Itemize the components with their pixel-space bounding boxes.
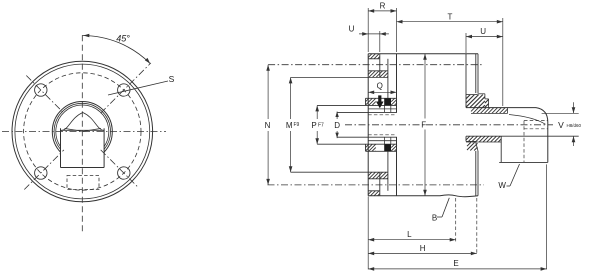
V dim line top <box>573 102 575 113</box>
P arrow top <box>315 105 319 111</box>
boss body right side <box>103 128 105 167</box>
P dimension line <box>316 105 318 119</box>
L arrow left <box>368 238 374 242</box>
dimension line U right <box>466 36 503 38</box>
dome radial line left <box>65 128 83 131</box>
leader line S <box>108 81 168 95</box>
seal ring black bottom <box>384 144 391 151</box>
nut band right end <box>507 108 509 114</box>
boss outer circle arc <box>52 101 112 152</box>
M recess edge bottom <box>291 171 388 173</box>
M dimension line <box>290 77 292 119</box>
cap left face <box>367 54 369 196</box>
tube bottom edge with break <box>368 195 478 197</box>
thread hidden line bottom <box>368 134 396 136</box>
cap body left edge bottom <box>396 137 398 196</box>
U left arrow l <box>362 32 368 36</box>
Q arrow left <box>368 91 374 95</box>
bolt hole edge mirror2 <box>368 178 388 180</box>
V arrow top <box>572 107 576 113</box>
boss body left side <box>60 128 62 167</box>
T arrow left <box>397 20 403 24</box>
hatch cap lower band1 <box>368 191 372 195</box>
bolt hole top-left <box>35 84 47 96</box>
D bore line top <box>337 111 397 113</box>
V arrow bottom <box>572 136 576 142</box>
svg-text:U: U <box>349 25 355 34</box>
svg-text:M: M <box>286 121 293 130</box>
thread hidden bottom <box>524 128 548 130</box>
svg-text:H8/d60: H8/d60 <box>567 123 582 128</box>
R arrow left <box>368 9 374 13</box>
svg-text:S: S <box>169 74 175 84</box>
D dimension line <box>336 112 338 120</box>
dome radial line right <box>83 128 101 131</box>
dimension line Q <box>368 91 396 93</box>
M recess edge top <box>291 76 388 78</box>
45deg arc arrowhead bottom <box>145 58 150 64</box>
flats block bottom <box>499 161 548 163</box>
svg-text:W: W <box>498 181 506 190</box>
cap plate back face bottom <box>379 172 381 195</box>
tube end face inner <box>477 54 479 93</box>
D arrow top <box>335 112 338 118</box>
seal ring black top <box>384 98 391 105</box>
M recess wall bottom <box>387 151 389 191</box>
svg-text:E: E <box>453 259 458 268</box>
dome arch curve <box>61 113 105 131</box>
M recess wall top <box>387 59 389 99</box>
R extension right <box>396 8 398 52</box>
rod right face <box>547 122 549 162</box>
vertical centerline (left view) <box>81 35 83 232</box>
U left dimension line <box>359 33 389 35</box>
bolt hole top-right <box>118 84 130 96</box>
gland strip top upper <box>366 97 397 99</box>
svg-text:D: D <box>334 121 340 130</box>
gland strip bot left end <box>365 144 367 151</box>
U right arrow r <box>497 35 503 39</box>
hatch gland strip top B <box>391 98 394 101</box>
P arrow bottom <box>315 138 319 144</box>
F arrow bottom <box>423 190 427 196</box>
svg-text:V: V <box>558 120 564 130</box>
45deg arc arrowhead top <box>83 34 89 38</box>
dimension line T <box>397 21 503 23</box>
svg-text:U: U <box>480 27 486 36</box>
gland sleeve edge bottom <box>465 136 467 141</box>
main axis centerline <box>345 124 553 126</box>
gland strip mid line <box>368 108 396 110</box>
gland step top v1 <box>484 94 486 99</box>
svg-text:45°: 45° <box>116 34 130 44</box>
hatch nut band top <box>471 108 475 112</box>
svg-text:H: H <box>420 244 426 253</box>
tube end face outer <box>475 54 477 93</box>
H ext line <box>476 198 478 255</box>
E arrow left <box>368 267 374 271</box>
bolt hole bottom-right <box>118 167 130 179</box>
E ext line left <box>367 197 369 270</box>
cap body left edge top <box>396 54 398 113</box>
E arrow right <box>541 267 547 271</box>
seal groove wall right bottom <box>390 137 392 144</box>
U left ext <box>379 31 381 52</box>
gland sleeve edge top <box>465 54 467 108</box>
bolt hole top edge <box>368 58 380 60</box>
bolt hole edge mirror1 <box>368 190 380 192</box>
N arrow bottom <box>266 179 270 185</box>
M arrow bottom <box>289 166 293 172</box>
diagonal centerline NW segment <box>26 76 64 114</box>
D bore line bottom <box>337 136 397 138</box>
svg-text:F7: F7 <box>318 123 324 129</box>
rod dome arc <box>509 115 546 125</box>
tube top edge <box>368 53 478 55</box>
Q arrow right <box>391 91 397 95</box>
N arrow top <box>266 65 270 71</box>
thread hidden line top <box>368 114 396 116</box>
flats block left face <box>500 136 502 162</box>
H arrow right <box>471 252 477 256</box>
bolt circle (dashed) <box>24 73 141 190</box>
F arrow top <box>423 54 427 60</box>
svg-text:T: T <box>448 12 453 21</box>
svg-text:B: B <box>432 214 437 223</box>
hatch head top <box>466 95 470 99</box>
dimension line L <box>368 239 456 241</box>
hatch nut band bottom <box>466 136 470 140</box>
svg-text:L: L <box>407 230 412 239</box>
seal groove wall left bottom <box>384 137 386 144</box>
thread depth hidden vertical <box>523 121 525 163</box>
boss chord line <box>61 129 105 131</box>
T extension right <box>502 18 504 106</box>
hatch cap lower band2 <box>368 172 372 176</box>
L arrow right <box>450 238 456 242</box>
svg-text:F: F <box>421 121 426 130</box>
leader W <box>507 185 511 187</box>
hatch gland bottom <box>467 142 471 146</box>
svg-text:P: P <box>311 121 316 130</box>
F dimension line <box>424 54 426 119</box>
gland strip top lower <box>317 104 397 106</box>
gland step top h2 <box>478 93 485 95</box>
gland strip bot lower <box>366 150 397 152</box>
hatch cap upper band1 <box>368 54 372 58</box>
bolt hole centerline top <box>268 64 484 66</box>
boss middle circle arc <box>54 103 110 149</box>
cap plate back face top <box>379 54 381 77</box>
gland strip top left end <box>365 98 367 105</box>
R extension left <box>367 8 369 52</box>
gland step top h3 <box>485 98 489 100</box>
rod nut outer surface top <box>466 107 536 109</box>
dimension line E <box>368 268 546 270</box>
rod bottom surface <box>466 135 579 137</box>
flange outer circle <box>12 61 153 202</box>
svg-text:Q: Q <box>377 82 383 91</box>
gland strip bot upper <box>317 143 397 145</box>
hidden square (dashed rect) <box>67 176 99 190</box>
hatch gland strip bot A <box>366 144 369 147</box>
diagonal centerline NE segment <box>101 63 151 113</box>
H arrow left <box>368 252 374 256</box>
45deg dimension arc <box>82 35 150 63</box>
U right ext left <box>465 33 467 53</box>
nut band top line bottom <box>466 141 501 143</box>
hatch cap upper band2 <box>368 71 372 75</box>
gland bottom chamfer <box>476 141 479 151</box>
tube end face outer lower <box>475 151 477 196</box>
svg-text:F9: F9 <box>294 122 300 128</box>
gland strip bot mid line <box>368 140 396 142</box>
dimension line H <box>368 252 477 254</box>
wiper arrow (filled) <box>376 95 384 108</box>
V ext top <box>542 112 579 114</box>
svg-text:R: R <box>380 2 386 11</box>
N dimension line <box>267 65 269 119</box>
flange outer circle inner line <box>15 64 150 199</box>
gland step top v2 <box>488 99 490 108</box>
seal groove wall left top <box>384 105 386 112</box>
rod end fillet <box>536 108 548 122</box>
leader B <box>437 216 442 218</box>
thread hidden top <box>524 120 548 122</box>
dimension line R <box>368 10 396 12</box>
seal groove wall right top <box>390 105 392 112</box>
V dim line bottom <box>573 136 575 146</box>
U left arrow r <box>380 32 386 36</box>
gland bottom h <box>466 140 476 142</box>
horizontal centerline (left view) <box>2 131 166 133</box>
M arrow top <box>289 77 293 83</box>
L ext line <box>455 198 457 242</box>
boss inner circle arc <box>56 105 109 147</box>
T arrow right <box>497 20 503 24</box>
boss body bottom <box>61 167 105 169</box>
D arrow bottom <box>335 133 338 139</box>
hatch gland strip bot B <box>391 144 394 147</box>
R arrow right <box>391 9 397 13</box>
bolt hole centerline bottom <box>268 184 485 186</box>
nut band bottom line top <box>471 112 508 114</box>
gland step top h1 <box>466 94 478 96</box>
U right arrow l <box>466 35 472 39</box>
bolt hole bottom-left <box>35 167 47 179</box>
tube end face inner lower <box>477 151 479 196</box>
svg-text:N: N <box>265 121 271 130</box>
diagonal centerline SW segment <box>24 150 64 190</box>
bolt hole bottom edge <box>368 70 388 72</box>
diagonal centerline SE segment <box>101 150 139 188</box>
hatch gland strip top A <box>366 98 369 101</box>
E ext line right <box>546 164 548 269</box>
